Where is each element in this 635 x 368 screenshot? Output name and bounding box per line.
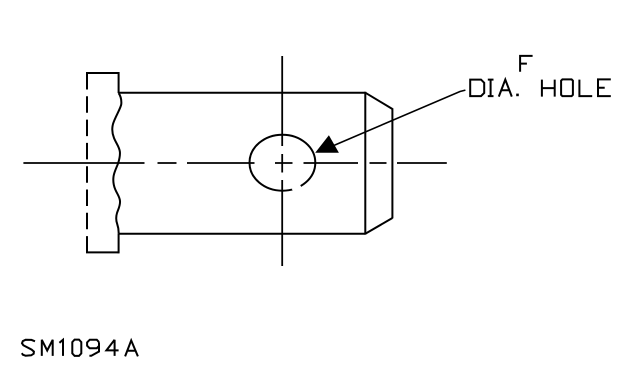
horizontal centerline dash 7 bbox=[397, 162, 447, 164]
letter I bbox=[488, 80, 494, 97]
letter O bbox=[561, 79, 573, 96]
part number digit 9 bbox=[87, 340, 99, 356]
letter L bbox=[579, 80, 592, 97]
hole circle gap (break in outline) bbox=[293, 186, 301, 191]
vertical centerline long dash bottom bbox=[281, 180, 283, 266]
horizontal centerline dash 2 bbox=[158, 162, 177, 164]
hidden end: left dashed vertical edge bbox=[86, 73, 88, 253]
hidden end: right edge bottom stub bbox=[118, 234, 120, 254]
break line (wavy) bbox=[112, 93, 121, 234]
horizontal centerline dash 5 bbox=[304, 162, 359, 164]
part number letter A bbox=[125, 340, 138, 356]
period after DIA bbox=[516, 94, 519, 97]
part number letter M bbox=[42, 340, 53, 356]
chamfer top diagonal bbox=[365, 93, 392, 109]
leader line bbox=[334, 90, 466, 146]
hidden end: right edge top stub bbox=[118, 72, 120, 93]
hidden end: top line bbox=[86, 72, 119, 74]
hidden end: bottom line bbox=[86, 251, 119, 253]
part number letter S bbox=[22, 340, 35, 356]
leader arrowhead bbox=[315, 135, 339, 153]
part number digit 4 bbox=[106, 340, 118, 356]
horizontal centerline center dash bbox=[275, 162, 293, 164]
letter H bbox=[542, 80, 555, 97]
horizontal centerline dash 3 bbox=[187, 162, 255, 164]
part number digit 1 bbox=[59, 340, 63, 356]
chamfer right vertical bbox=[391, 108, 393, 218]
vertical centerline long dash top bbox=[281, 56, 283, 146]
body top line bbox=[119, 92, 366, 94]
part number digit 0 bbox=[72, 340, 81, 356]
body bottom line bbox=[119, 233, 366, 235]
body right edge bbox=[364, 92, 366, 235]
chamfer bottom diagonal bbox=[365, 218, 392, 234]
letter E bbox=[598, 79, 611, 96]
letter A of DIA bbox=[499, 80, 512, 97]
horizontal centerline dash 1 bbox=[23, 162, 144, 164]
vertical centerline center dash bbox=[281, 154, 283, 173]
letter F (hole label) bbox=[520, 56, 533, 72]
letter D bbox=[470, 80, 484, 97]
hole circle bbox=[250, 135, 316, 191]
horizontal centerline dash 6 bbox=[370, 162, 387, 164]
